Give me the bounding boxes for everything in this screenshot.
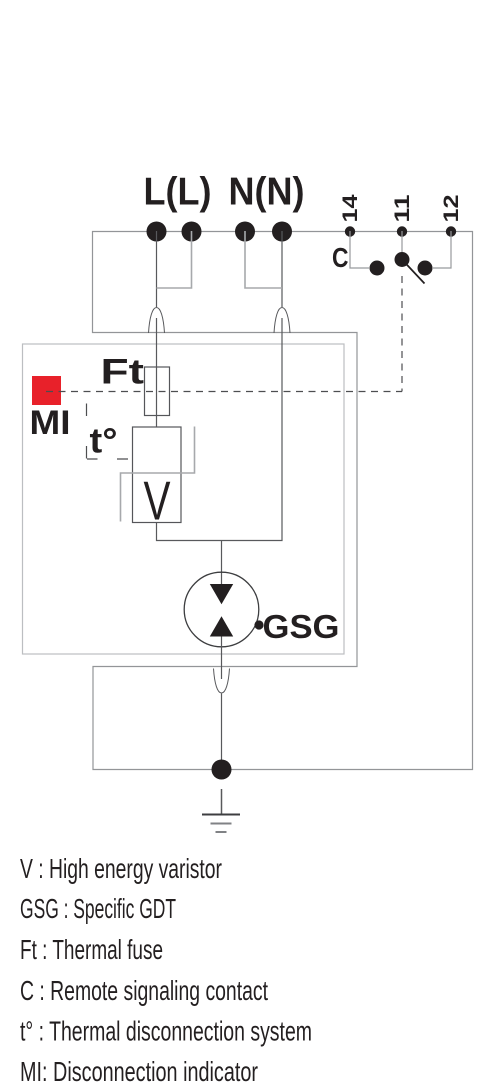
- terminal dot 11: [397, 226, 407, 236]
- thermal linkage: [121, 427, 195, 522]
- svg-text:Ft: Ft: [101, 352, 145, 392]
- wire earth loop: [93, 232, 473, 770]
- wire jump arc N: [274, 308, 290, 334]
- thermal box t dashed bottom edge: [87, 458, 128, 460]
- thermal box t dashed left edge: [86, 404, 88, 459]
- GSG pointer dot: [254, 620, 263, 629]
- varistor V body: [133, 427, 182, 523]
- wire L jumper: [157, 231, 192, 288]
- ground bar 2: [211, 823, 232, 825]
- thermal fuse Ft body: [145, 367, 170, 416]
- svg-text:C : Remote signaling contact: C : Remote signaling contact: [20, 975, 268, 1006]
- wire jump arc bottom: [214, 669, 230, 694]
- contact lever: [402, 260, 425, 284]
- wire jump arc L: [149, 308, 165, 334]
- ground stem: [221, 789, 223, 814]
- svg-text:12: 12: [440, 195, 463, 223]
- indicator MI red square: [32, 376, 61, 405]
- terminal dot 12: [446, 226, 456, 236]
- device enclosure box: [23, 344, 345, 654]
- wire 11 to contact: [401, 231, 403, 252]
- contact dot NC: [418, 261, 433, 276]
- ground bar 1: [202, 814, 240, 816]
- svg-text:MI: MI: [30, 404, 71, 442]
- svg-text:14: 14: [339, 194, 362, 222]
- wire L main drop: [156, 231, 158, 427]
- terminal dot L1: [147, 222, 167, 242]
- svg-text:MI: Disconnection indicator: MI: Disconnection indicator: [20, 1056, 258, 1087]
- terminal dot N1: [235, 222, 255, 242]
- svg-text:GSG: GSG: [263, 608, 340, 645]
- svg-text:V : High energy varistor: V : High energy varistor: [20, 853, 222, 884]
- svg-text:t°: t°: [90, 421, 118, 461]
- wire N jumper: [245, 231, 282, 288]
- svg-text:GSG : Specific GDT: GSG : Specific GDT: [20, 893, 176, 924]
- wire 14 to contact: [350, 231, 369, 268]
- GDT triangle down: [210, 584, 233, 604]
- svg-text:t° : Thermal disconnection sys: t° : Thermal disconnection system: [20, 1015, 312, 1046]
- terminal dot 14: [345, 226, 355, 236]
- contact dot common: [395, 252, 410, 267]
- terminal dot N2: [272, 222, 292, 242]
- svg-text:L(L): L(L): [144, 171, 212, 214]
- svg-text:Ft : Thermal fuse: Ft : Thermal fuse: [20, 934, 163, 965]
- dashed link horizontal: [46, 391, 402, 393]
- GDT circle: [184, 572, 259, 647]
- wire varistor to GDT: [221, 541, 223, 585]
- contact dot NO: [370, 261, 385, 276]
- svg-text:N(N): N(N): [229, 171, 305, 214]
- wire GDT to earth: [221, 637, 223, 770]
- terminal dot L2: [182, 222, 202, 242]
- wire N main drop: [157, 231, 283, 541]
- wire 12 to contact: [433, 231, 451, 268]
- earth junction dot: [212, 760, 232, 780]
- GDT triangle up: [210, 616, 233, 636]
- svg-text:11: 11: [391, 194, 414, 222]
- dashed link vertical: [401, 276, 403, 392]
- svg-text:C: C: [332, 242, 349, 273]
- ground bar 3: [216, 831, 227, 833]
- svg-text:V: V: [144, 470, 171, 532]
